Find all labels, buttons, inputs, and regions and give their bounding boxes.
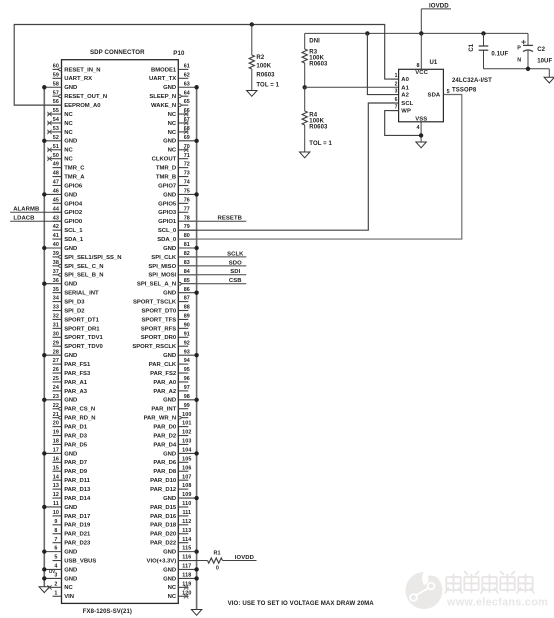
svg-text:85: 85 [184,278,190,284]
svg-text:GND: GND [163,246,176,252]
wire LDACB to pin 43 [10,220,61,222]
svg-text:GND: GND [163,139,176,145]
svg-text:PAR_D3: PAR_D3 [64,433,88,439]
U1 pin 5 SDA [428,89,450,99]
junction left GND bus pin 36 [42,282,46,286]
resistor R3 (DNI) [302,33,328,87]
svg-text:6: 6 [395,97,398,103]
pin 12 PAR_D14 (left) [53,492,92,502]
ground (right bus) [191,610,201,616]
svg-text:27: 27 [53,358,59,364]
resistor R4 [302,87,332,152]
svg-text:GPIO6: GPIO6 [64,183,83,189]
svg-text:5: 5 [447,89,450,95]
junction right GND bus pin 98 [194,398,198,402]
svg-text:19: 19 [53,430,59,436]
pin 105 PAR_D6 (right) [153,456,191,466]
svg-text:113: 113 [182,528,191,534]
svg-text:25: 25 [53,376,59,382]
svg-text:VSS: VSS [415,116,427,122]
svg-text:P10: P10 [173,50,185,57]
svg-text:PAR_D14: PAR_D14 [64,496,91,502]
pin 2 NC (left) [47,581,73,591]
svg-text:TMR_B: TMR_B [156,174,176,180]
svg-text:SPORT_TDV0: SPORT_TDV0 [64,344,103,350]
svg-text:80: 80 [184,233,190,239]
svg-text:55: 55 [53,108,59,114]
svg-text:1: 1 [395,73,398,79]
svg-text:91: 91 [184,331,190,337]
svg-text:TSSOP8: TSSOP8 [452,87,477,93]
svg-text:17: 17 [53,447,59,453]
wire A1 net to U1 pin 2 [305,86,399,88]
svg-text:22: 22 [53,403,59,409]
pin 21 PAR_RD_N (left) [53,412,96,422]
pin 109 GND (right) [163,492,196,502]
pin 85 SPI_SEL_A_N (right) [137,278,197,288]
pin 11 GND (left) [44,501,77,511]
svg-text:111: 111 [182,510,191,516]
capacitor C1 0.1UF [469,33,509,68]
pin 119 NC (right) [168,581,192,591]
pin 41 SDA_1 (left) [53,233,84,243]
svg-text:41: 41 [53,233,59,239]
svg-text:84: 84 [184,269,190,275]
junction left GND bus pin 40 [42,246,46,250]
svg-text:PAR_D1: PAR_D1 [64,425,88,431]
svg-text:PAR_D7: PAR_D7 [64,460,88,466]
svg-text:117: 117 [182,564,191,570]
svg-text:SPI_CLK: SPI_CLK [151,255,177,261]
pin 94 PAR_CLK (right) [149,358,190,368]
pin 99 PAR_INT (right) [151,403,189,413]
svg-text:CLKOUT: CLKOUT [152,157,177,163]
svg-text:75: 75 [184,189,190,195]
svg-text:GND: GND [64,246,77,252]
svg-text:SLEEP_N: SLEEP_N [149,94,176,100]
svg-text:1: 1 [54,590,57,596]
wire SCL_0 net: pin 79 to U1 SCL pin 6 [178,103,398,230]
pin 108 PAR_D12 (right) [150,483,191,493]
svg-text:SPORT_DT0: SPORT_DT0 [141,308,176,314]
pin 80 SDA_0 (right) [157,233,196,243]
junction left GND bus pin 6 [42,549,46,553]
svg-text:3: 3 [395,89,398,95]
svg-text:SPORT_RFS: SPORT_RFS [141,326,176,332]
svg-text:NC: NC [168,112,177,118]
junction right GND bus pin 63 [194,85,198,89]
svg-text:10: 10 [53,510,59,516]
svg-text:40: 40 [53,242,59,248]
svg-text:24: 24 [53,385,59,391]
pin 61 BMODE1 (right) [151,64,190,74]
svg-text:N: N [517,57,521,63]
svg-text:8: 8 [54,528,57,534]
svg-text:BMODE1: BMODE1 [151,67,177,73]
pin 44 GPIO2 (left) [53,206,83,216]
svg-text:SDP CONNECTOR: SDP CONNECTOR [90,49,145,56]
svg-text:PAR_D23: PAR_D23 [64,541,91,547]
svg-text:64: 64 [184,90,190,96]
pin 66 NC (right) [168,108,190,118]
svg-text:GND: GND [64,282,77,288]
svg-text:39: 39 [53,251,59,257]
U1 pin 4 VSS [415,116,427,142]
svg-text:PAR_FS2: PAR_FS2 [150,371,177,377]
svg-text:107: 107 [182,474,191,480]
ground (U1 VSS) [416,142,426,148]
svg-text:70: 70 [184,144,190,150]
svg-text:SPORT_TSCLK: SPORT_TSCLK [133,299,177,305]
junction left GND bus pin 52 [42,139,46,143]
junction R2 top on EEPROM_A0 net [250,22,254,26]
svg-text:51: 51 [53,144,59,150]
svg-text:PAR_A2: PAR_A2 [153,389,177,395]
pin 90 SPORT_RFS (right) [141,322,190,332]
svg-text:100K: 100K [256,64,271,70]
svg-text:45: 45 [53,197,59,203]
pin 98 GND (right) [163,394,196,404]
svg-text:82: 82 [184,251,190,257]
svg-text:PAR_RD_N: PAR_RD_N [64,416,95,422]
svg-text:SPI_D3: SPI_D3 [64,299,85,305]
svg-text:A1: A1 [401,85,409,91]
svg-text:VIO(+3.3V): VIO(+3.3V) [147,558,177,564]
pin 40 GND (left) [44,242,77,252]
svg-text:UART_RX: UART_RX [64,76,92,82]
pin 103 PAR_D4 (right) [153,439,191,449]
pin 58 GND (left) [44,81,77,91]
svg-text:32: 32 [53,314,59,320]
svg-text:VIN: VIN [64,594,74,600]
ground (R4) [300,152,310,158]
junction right GND bus pin 117 [194,567,198,571]
pin 14 PAR_D11 (left) [53,474,91,484]
svg-text:36: 36 [53,278,59,284]
svg-text:71: 71 [184,153,190,159]
svg-text:PAR_D20: PAR_D20 [150,532,177,538]
wire WP to VSS [385,111,421,136]
svg-text:SDA_0: SDA_0 [157,237,177,243]
svg-text:SDA_1: SDA_1 [64,237,84,243]
svg-text:10UF: 10UF [537,58,552,64]
svg-text:12: 12 [53,492,59,498]
svg-text:109: 109 [182,492,191,498]
pin 50 NC (left) [47,153,73,163]
svg-text:83: 83 [184,260,190,266]
svg-text:93: 93 [184,349,190,355]
pin 32 SPORT_DT1 (left) [53,314,100,324]
pin 36 GND (left) [44,278,77,288]
junction right GND bus pin 75 [194,192,198,196]
svg-text:SPORT_DR0: SPORT_DR0 [141,335,177,341]
svg-text:PAR_D6: PAR_D6 [153,460,177,466]
pin 100 PAR_WR_N (right) [144,412,192,422]
svg-text:SCLK: SCLK [227,251,244,257]
svg-text:SPORT_RSCLK: SPORT_RSCLK [132,344,177,350]
svg-text:99: 99 [184,403,190,409]
pin 4 GND (left) [44,564,77,574]
svg-text:98: 98 [184,394,190,400]
pin 72 TMR_D (right) [156,162,190,172]
svg-text:TMR_D: TMR_D [156,166,176,172]
svg-text:35: 35 [53,287,59,293]
svg-text:RESET_OUT_N: RESET_OUT_N [64,94,107,100]
svg-text:NC: NC [168,585,177,591]
svg-text:SPI_SEL_B_N: SPI_SEL_B_N [64,273,103,279]
svg-text:SCL_0: SCL_0 [158,228,177,234]
svg-text:SPI_SEL1/SPI_SS_N: SPI_SEL1/SPI_SS_N [64,255,121,261]
svg-text:UART_TX: UART_TX [149,76,176,82]
pin 33 SPI_D2 (left) [53,305,86,315]
pin 48 TMR_A (left) [53,171,86,181]
pin 82 SPI_CLK (right) [151,251,196,261]
pin 5 USB_VBUS (left) [53,555,97,565]
svg-text:CSB: CSB [229,278,242,284]
svg-text:C1: C1 [469,43,475,51]
svg-text:73: 73 [184,171,190,177]
svg-text:NC: NC [64,585,73,591]
svg-text:72: 72 [184,162,190,168]
pin 107 PAR_D10 (right) [150,474,191,484]
svg-text:PAR_CLK: PAR_CLK [149,362,177,368]
pin 96 PAR_A0 (right) [153,376,190,386]
svg-text:28: 28 [53,349,59,355]
svg-text:GND: GND [64,353,77,359]
svg-text:A0: A0 [401,77,409,83]
svg-text:100K: 100K [309,55,324,61]
svg-text:SPI_SEL_C_N: SPI_SEL_C_N [64,264,103,270]
svg-text:GPIO7: GPIO7 [158,183,177,189]
svg-text:44: 44 [53,206,59,212]
svg-text:GND: GND [64,139,77,145]
svg-text:GND: GND [163,291,176,297]
svg-text:33: 33 [53,305,59,311]
U1 pin 1 A0 [391,73,410,83]
svg-text:TMR_C: TMR_C [64,166,85,172]
svg-text:GND: GND [163,576,176,582]
svg-text:RESET_IN_N: RESET_IN_N [64,67,100,73]
svg-text:77: 77 [184,206,190,212]
svg-text:105: 105 [182,456,191,462]
svg-text:GND: GND [163,550,176,556]
svg-text:GND: GND [163,451,176,457]
svg-text:SCL: SCL [401,101,413,107]
svg-text:www.elecfans.com: www.elecfans.com [446,597,548,609]
svg-text:GND: GND [64,505,77,511]
svg-text:GND: GND [64,398,77,404]
pin 6 GND (left) [44,546,77,556]
junction C1 on rail [481,31,485,35]
pin 19 PAR_D3 (left) [53,430,88,440]
svg-text:GPIO3: GPIO3 [158,210,177,216]
svg-text:U1: U1 [430,60,438,66]
svg-text:13: 13 [53,483,59,489]
connector P10 body [62,60,179,604]
ground (R2) [247,91,257,97]
svg-text:9: 9 [54,519,57,525]
pin 69 GND (right) [163,135,196,145]
svg-text:26: 26 [53,367,59,373]
svg-text:56: 56 [53,99,59,105]
pin 59 UART_RX (left) [53,72,93,82]
svg-text:GPIO5: GPIO5 [158,201,177,207]
pin 101 PAR_D0 (right) [153,421,191,431]
pin 112 PAR_D18 (right) [150,519,191,529]
svg-text:97: 97 [184,385,190,391]
pin 27 PAR_FS1 (left) [53,358,92,368]
svg-text:68: 68 [184,126,190,132]
svg-text:FX8-120S-SV(21): FX8-120S-SV(21) [83,609,132,615]
svg-text:100: 100 [182,412,191,418]
junction right GND bus pin 115 [194,549,198,553]
svg-text:78: 78 [184,215,190,221]
pin 55 NC (left) [47,108,73,118]
junction left GND bus pin 17 [42,451,46,455]
pin 79 SCL_0 (right) [158,224,197,234]
pin 9 PAR_D19 (left) [53,519,92,529]
svg-text:86: 86 [184,287,190,293]
svg-text:GND: GND [64,576,77,582]
svg-text:WP: WP [401,109,411,115]
svg-text:VCC: VCC [415,70,428,76]
svg-text:PAR_D5: PAR_D5 [64,442,88,448]
pin 23 GND (left) [44,394,77,404]
U1 pin 3 A2 [395,89,410,99]
svg-text:PAR_D22: PAR_D22 [150,541,177,547]
svg-text:42: 42 [53,224,59,230]
svg-text:GND: GND [163,353,176,359]
wire R1 to IOVDD label [223,560,248,562]
svg-text:49: 49 [53,162,59,168]
pin 64 SLEEP_N (right) [149,90,190,100]
junction right GND bus pin 69 [194,139,198,143]
svg-text:106: 106 [182,465,191,471]
svg-text:NC: NC [64,130,73,136]
pin 28 GND (left) [44,349,77,359]
pin 35 SERIAL_INT (left) [53,287,99,297]
pin 118 GND (right) [163,573,196,583]
svg-text:34: 34 [53,296,59,302]
svg-text:PAR_D16: PAR_D16 [150,514,177,520]
svg-text:0.1UF: 0.1UF [491,52,508,58]
svg-text:PAR_D2: PAR_D2 [153,433,177,439]
svg-text:R1: R1 [213,551,220,557]
svg-text:SERIAL_INT: SERIAL_INT [64,291,99,297]
pin 86 GND (right) [163,287,196,297]
U1 pin 2 A1 [395,81,410,91]
pin 7 PAR_D23 (left) [53,537,92,547]
pin 54 NC (left) [47,117,73,127]
svg-text:GND: GND [163,192,176,198]
svg-text:103: 103 [182,439,191,445]
svg-text:PAR_D13: PAR_D13 [64,487,91,493]
ground (C1/C2) [548,69,550,77]
pin 16 PAR_D7 (left) [53,456,88,466]
svg-text:110: 110 [182,501,191,507]
svg-text:NC: NC [64,157,73,163]
pin 38 SPI_SEL_C_N (left) [53,260,104,270]
svg-text:NC: NC [64,112,73,118]
svg-text:PAR_D8: PAR_D8 [153,469,177,475]
svg-text:SPORT_DR1: SPORT_DR1 [64,326,100,332]
svg-text:PAR_D4: PAR_D4 [153,442,177,448]
pin 46 GND (left) [44,189,77,199]
pin 56 EEPROM_A0 (left) [53,99,102,109]
svg-text:60: 60 [53,64,59,70]
pin 88 SPORT_DT0 (right) [141,305,189,315]
pin 30 SPORT_TDV1 (left) [53,331,104,341]
svg-text:119: 119 [182,581,191,587]
svg-text:21: 21 [53,412,59,418]
svg-text:GPIO1: GPIO1 [158,219,177,225]
pin 52 GND (left) [44,135,77,145]
svg-text:NC: NC [168,594,177,600]
svg-text:4: 4 [416,125,419,131]
svg-text:96: 96 [184,376,190,382]
svg-text:TMR_A: TMR_A [64,174,85,180]
svg-text:89: 89 [184,314,190,320]
pin 22 PAR_CS_N (left) [53,403,96,413]
svg-text:PAR_D21: PAR_D21 [64,532,91,538]
pin 74 GPIO7 (right) [158,180,190,190]
svg-text:120: 120 [182,590,191,596]
pin 39 SPI_SEL1/SPI_SS_N (left) [53,251,122,261]
svg-text:PAR_INT: PAR_INT [151,407,176,413]
svg-text:81: 81 [184,242,190,248]
svg-text:18: 18 [53,439,59,445]
pin 87 SPORT_TSCLK (right) [133,296,190,306]
pin 102 PAR_D2 (right) [153,430,191,440]
pin 95 PAR_FS2 (right) [150,367,190,377]
svg-text:GND: GND [64,567,77,573]
svg-text:VIO: USE TO SET IO VOLTAGE MAX: VIO: USE TO SET IO VOLTAGE MAX DRAW 20MA [228,600,375,607]
svg-text:SPORT_TFS: SPORT_TFS [141,317,176,323]
svg-text:8: 8 [416,63,419,69]
pin 89 SPORT_TFS (right) [141,314,189,324]
svg-text:79: 79 [184,224,190,230]
pin 63 GND (right) [163,81,196,91]
pin 26 PAR_FS3 (left) [53,367,92,377]
svg-text:PAR_D15: PAR_D15 [150,505,177,511]
wire SDA_0 net: pin 80 to U1 SDA pin 5 [178,95,462,240]
pin 45 GPIO4 (left) [53,197,83,207]
U1 pin 7 WP [391,105,411,115]
junction WP/VSS [419,133,423,137]
junction right GND bus pin 118 [194,576,198,580]
U1 pin 8 VCC [415,33,428,76]
pin 67 NC (right) [168,117,190,127]
svg-text:DNI: DNI [309,38,320,44]
svg-text:52: 52 [53,135,59,141]
svg-text:92: 92 [184,340,190,346]
svg-text:R0603: R0603 [256,72,275,78]
wire left GND bus [43,87,45,587]
svg-text:NC: NC [64,148,73,154]
pin 76 GPIO5 (right) [158,197,190,207]
pin 8 PAR_D21 (left) [53,528,92,538]
svg-text:16: 16 [53,456,59,462]
svg-text:115: 115 [182,546,191,552]
svg-text:R0603: R0603 [309,125,328,131]
wire VIO pin 116 to R1 [178,560,207,562]
svg-text:90: 90 [184,322,190,328]
svg-text:GPIO2: GPIO2 [64,210,83,216]
svg-text:PAR_WR_N: PAR_WR_N [144,416,177,422]
pin 81 GND (right) [163,242,196,252]
svg-text:PAR_A3: PAR_A3 [64,389,88,395]
svg-text:GND: GND [163,398,176,404]
